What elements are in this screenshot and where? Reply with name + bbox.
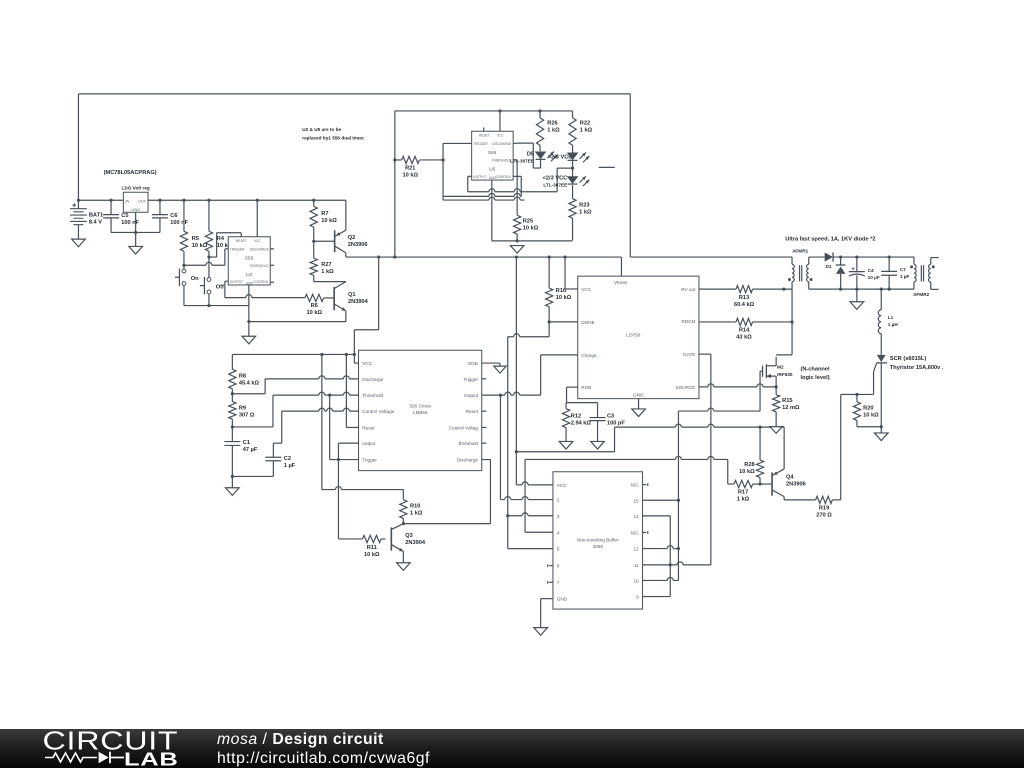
- svg-text:14: 14: [634, 514, 640, 519]
- svg-text:12 mΩ: 12 mΩ: [782, 405, 800, 411]
- svg-text:1 µF: 1 µF: [900, 274, 910, 279]
- node: [758, 482, 761, 485]
- pin U3 DONE wire: [549, 321, 578, 323]
- wire pin2 feed: [500, 395, 553, 499]
- svg-text:1 kΩ: 1 kΩ: [321, 269, 334, 275]
- wire pin11: [643, 562, 711, 567]
- svg-text:Charge: Charge: [581, 353, 597, 358]
- ground: [632, 409, 646, 417]
- svg-text:R8: R8: [239, 373, 246, 379]
- svg-text:47 µF: 47 µF: [243, 447, 258, 453]
- pin 556 GND right: [482, 363, 500, 366]
- wire pin9: [643, 596, 671, 598]
- node R5 bottom: [182, 264, 185, 267]
- svg-text:C1: C1: [243, 440, 250, 446]
- svg-text:555: 555: [488, 150, 496, 156]
- svg-text:>2/3 VCC: >2/3 VCC: [548, 154, 573, 160]
- pin 556 Reset right stub: [482, 410, 487, 412]
- resistor R7: [310, 199, 337, 242]
- svg-text:RGB: RGB: [581, 385, 591, 390]
- svg-text:XFMR2: XFMR2: [913, 292, 929, 297]
- wire: [492, 239, 573, 242]
- wire: [393, 160, 396, 259]
- wire 556 Discharge right: [403, 460, 490, 524]
- pin 556 threshold right stub: [482, 442, 487, 444]
- svg-text:TRIGGER: TRIGGER: [230, 247, 245, 251]
- svg-text:D5: D5: [527, 152, 534, 158]
- wire control route: [273, 408, 358, 443]
- svg-text:Trigger: Trigger: [362, 458, 377, 463]
- svg-text:D1: D1: [825, 264, 831, 269]
- pin 556 output left: [338, 443, 358, 459]
- svg-text:2N3906: 2N3906: [348, 242, 368, 248]
- wire: [249, 311, 346, 322]
- pin U2 GND wire: [247, 285, 250, 336]
- diode D2 freewheel: [836, 257, 846, 289]
- ground: [494, 366, 506, 373]
- svg-text:CONTROL: CONTROL: [496, 175, 512, 179]
- wire DONE to 4050 col: [508, 322, 549, 516]
- wire pin15: [643, 499, 681, 502]
- svg-text:C7: C7: [900, 267, 906, 272]
- svg-text:threshold: threshold: [459, 441, 479, 446]
- node LED junction: [571, 160, 574, 169]
- svg-text:RDCM: RDCM: [681, 319, 695, 324]
- wire: [629, 94, 631, 257]
- wire: [77, 94, 79, 200]
- svg-text:Lt3750: Lt3750: [626, 332, 641, 337]
- node: [231, 392, 234, 395]
- text <2/3 VCC: [543, 175, 568, 187]
- svg-text:R6: R6: [311, 303, 318, 309]
- wire: [225, 249, 228, 265]
- wire: [783, 497, 785, 500]
- wire 556 Output right: [482, 355, 578, 397]
- wire 556 reset route: [346, 354, 358, 427]
- wire: [314, 240, 335, 242]
- wire U5 row2: [443, 176, 521, 196]
- ground: [510, 246, 524, 254]
- svg-text:C2: C2: [284, 456, 291, 462]
- transistor Q3 2N3904: [391, 524, 426, 552]
- svg-text:N/C: N/C: [631, 483, 640, 488]
- svg-text:SOURCE: SOURCE: [675, 385, 695, 390]
- svg-text:R26: R26: [547, 121, 557, 127]
- svg-text:Control Voltag: Control Voltag: [449, 425, 479, 430]
- svg-text:VCC: VCC: [362, 361, 373, 366]
- svg-text:C5: C5: [121, 213, 128, 219]
- battery BAT1: [70, 199, 103, 226]
- svg-text:GND: GND: [131, 207, 140, 212]
- transformer XFMR1: [788, 249, 813, 355]
- node: [548, 320, 551, 323]
- svg-text:7: 7: [557, 580, 560, 585]
- svg-text:LM556: LM556: [413, 410, 428, 415]
- svg-text:Reset: Reset: [466, 409, 479, 414]
- resistor R16: [546, 255, 572, 321]
- node R4 bottom: [207, 255, 210, 258]
- resistor R21: [393, 156, 443, 178]
- svg-text:N/C: N/C: [631, 531, 640, 536]
- resistor R5: [180, 199, 207, 266]
- svg-text:12: 12: [634, 547, 640, 552]
- capacitor C2: [265, 443, 295, 476]
- wire: [232, 353, 356, 356]
- pin U3 Vtrans: [620, 257, 622, 276]
- svg-text:10 kΩ: 10 kΩ: [321, 218, 337, 224]
- pin U5 VCC: [498, 109, 501, 131]
- wire: [111, 231, 160, 233]
- svg-text:OUTPUT: OUTPUT: [473, 175, 487, 179]
- svg-text:GND: GND: [557, 597, 568, 602]
- wire: [809, 288, 914, 291]
- svg-text:DISCHARGE: DISCHARGE: [492, 142, 512, 146]
- resistor R27: [310, 240, 334, 282]
- svg-text:R5: R5: [192, 236, 199, 242]
- svg-text:R14: R14: [739, 328, 750, 334]
- wire main mid rail: [346, 256, 622, 258]
- svg-text:1 µF: 1 µF: [284, 463, 296, 469]
- wire gate col: [677, 411, 679, 580]
- text SCR label: [890, 356, 944, 371]
- resistor R10: [400, 490, 423, 524]
- transistor Q1 2N3904: [334, 282, 369, 311]
- resistor R17: [728, 459, 760, 502]
- diode LED 2: [568, 153, 590, 163]
- wire pin14: [643, 516, 671, 597]
- svg-text:100 nF: 100 nF: [170, 220, 188, 226]
- svg-text:43 kΩ: 43 kΩ: [736, 335, 752, 341]
- ground: [874, 433, 888, 441]
- svg-text:U5: U5: [489, 166, 496, 172]
- svg-text:Trigger: Trigger: [463, 377, 478, 382]
- wire U5 discharge to D5: [513, 143, 540, 168]
- wire pin4 feed: [525, 459, 553, 532]
- wire stub dash: [599, 166, 615, 168]
- wire U2 output to R6: [225, 295, 305, 298]
- wire: [231, 475, 274, 488]
- ground: [226, 488, 240, 496]
- wire: [337, 460, 339, 539]
- transformer XFMR2: [910, 257, 939, 297]
- svg-text:R21: R21: [405, 166, 415, 172]
- svg-text:45.4 kΩ: 45.4 kΩ: [239, 380, 260, 386]
- svg-text:2N3904: 2N3904: [405, 540, 426, 546]
- svg-text:M2: M2: [777, 365, 784, 370]
- wire pin10: [643, 577, 679, 580]
- resistor R19: [784, 394, 841, 518]
- wire: [314, 281, 346, 283]
- svg-text:Discharge: Discharge: [457, 458, 478, 463]
- wire: [833, 255, 914, 258]
- wire 4050 vcc feed: [515, 255, 518, 453]
- resistor R26: [536, 109, 560, 151]
- wire: [249, 321, 346, 323]
- ground: [129, 246, 143, 254]
- svg-text:LTL-307EE: LTL-307EE: [543, 182, 567, 187]
- pin U3 VCC wire: [563, 255, 577, 289]
- wire U5 trigger: [441, 143, 471, 196]
- svg-text:4050: 4050: [593, 544, 604, 549]
- svg-text:SCR (s6015L): SCR (s6015L): [890, 356, 926, 362]
- op-amp 556 LM556: [359, 350, 482, 470]
- resistor R20: [853, 394, 881, 426]
- svg-text:Q1: Q1: [348, 292, 356, 298]
- svg-text:8.4 V: 8.4 V: [89, 219, 102, 225]
- note text N-channel: [800, 367, 830, 382]
- resistor R15: [773, 387, 800, 427]
- svg-text:556 Cmos: 556 Cmos: [409, 403, 431, 408]
- svg-text:10 µF: 10 µF: [868, 275, 880, 280]
- op-amp U5 555 timer: [472, 131, 514, 180]
- svg-text:10 kΩ: 10 kΩ: [364, 552, 380, 558]
- capacitor C5: [103, 199, 140, 233]
- svg-text:CONTROL: CONTROL: [253, 280, 269, 284]
- pin 556 Trigger right stub: [482, 378, 487, 380]
- svg-text:U2 & U5 are to be: U2 & U5 are to be: [302, 127, 341, 132]
- wire threshold route: [232, 392, 358, 427]
- op-amp U3 LT3750: [578, 276, 699, 399]
- text ultra fast: [785, 236, 875, 242]
- capacitor C1: [224, 427, 257, 477]
- svg-text:R19: R19: [819, 505, 829, 511]
- svg-text:R20: R20: [863, 405, 873, 411]
- wire discharge route: [232, 376, 358, 394]
- svg-text:Q4: Q4: [786, 475, 794, 481]
- svg-text:DONE: DONE: [581, 320, 595, 325]
- pin U2 THRESHOLD: [270, 264, 274, 266]
- resistor R23: [569, 185, 592, 240]
- transistor Q2 2N3906: [335, 200, 368, 253]
- svg-text:C3: C3: [607, 414, 614, 420]
- svg-text:Q2: Q2: [348, 235, 356, 241]
- diode D5 LED: [536, 152, 558, 169]
- svg-text:1 kΩ: 1 kΩ: [737, 496, 750, 502]
- wire output-threshold feedback: [330, 395, 339, 459]
- wire U5 output route: [468, 176, 525, 191]
- svg-text:R17: R17: [738, 489, 748, 495]
- svg-text:2.94 kΩ: 2.94 kΩ: [571, 420, 592, 426]
- wire sense row: [525, 456, 728, 459]
- wire drain jog: [776, 354, 792, 356]
- svg-text:R7: R7: [321, 211, 328, 217]
- svg-text:Thyristor 15A,600v .: Thyristor 15A,600v .: [890, 365, 944, 371]
- wire: [184, 304, 249, 307]
- transistor M2 IRF530: [760, 357, 793, 411]
- svg-text:L1: L1: [888, 315, 894, 320]
- resistor R8: [229, 354, 260, 393]
- svg-text:10 kΩ: 10 kΩ: [556, 295, 572, 301]
- svg-text:11: 11: [634, 563, 639, 568]
- pin U3 GND wire: [638, 399, 640, 409]
- svg-text:OUTPUT: OUTPUT: [230, 280, 244, 284]
- svg-text:9: 9: [636, 595, 639, 600]
- inductor L1: [878, 289, 898, 355]
- note text: [302, 127, 365, 141]
- svg-text:Vtrans: Vtrans: [614, 280, 628, 285]
- wire pin3 feed: [506, 513, 553, 518]
- thyristor SCR: [841, 355, 887, 433]
- svg-text:replaced by1 556 dual timer.: replaced by1 556 dual timer.: [302, 136, 365, 141]
- svg-text:100 pF: 100 pF: [607, 420, 625, 426]
- diode LED 3: [568, 168, 590, 186]
- svg-text:R23: R23: [579, 202, 589, 208]
- svg-text:307 Ω: 307 Ω: [239, 412, 255, 418]
- ground: [397, 563, 411, 571]
- wire: [345, 253, 347, 257]
- svg-text:15: 15: [634, 498, 640, 503]
- svg-text:+: +: [72, 202, 76, 209]
- svg-text:R10: R10: [410, 503, 420, 509]
- svg-text:10 kΩ: 10 kΩ: [863, 412, 879, 418]
- ground: [534, 628, 548, 636]
- resistor R13: [699, 286, 792, 308]
- svg-text:C4: C4: [868, 268, 874, 273]
- svg-text:logic level): logic level): [800, 375, 829, 381]
- node main rail: [78, 199, 345, 201]
- resistor R25: [514, 215, 539, 241]
- footer bar: [0, 729, 1024, 768]
- svg-text:Discharge: Discharge: [362, 377, 383, 382]
- svg-text:R28: R28: [744, 462, 754, 468]
- svg-text:RESET: RESET: [479, 133, 491, 137]
- svg-text:Ultra fast speed, 1A, 1KV diod: Ultra fast speed, 1A, 1KV diode *2: [785, 236, 875, 242]
- svg-text:VCC: VCC: [497, 133, 504, 137]
- ground: [242, 336, 256, 344]
- wire: [525, 168, 573, 192]
- wire: [184, 262, 225, 265]
- svg-text:VCC: VCC: [557, 483, 568, 488]
- svg-text:OUT: OUT: [138, 198, 147, 203]
- capacitor C6: [152, 199, 189, 233]
- svg-text:Control Voltage: Control Voltage: [362, 409, 394, 414]
- wire: [630, 256, 792, 258]
- svg-text:R11: R11: [367, 545, 377, 551]
- capacitor C7: [881, 257, 909, 289]
- svg-text:10 kΩ: 10 kΩ: [402, 173, 418, 179]
- svg-text:R9: R9: [239, 405, 246, 411]
- capacitor C3: [566, 403, 625, 442]
- wire 556 VCC route: [354, 255, 380, 363]
- svg-text:VCC: VCC: [254, 239, 261, 243]
- wire 556 to R10 row: [322, 354, 404, 489]
- ground: [770, 427, 782, 434]
- op-amp U2 555 timer: [228, 237, 270, 286]
- svg-text:2N3904: 2N3904: [348, 299, 369, 305]
- svg-text:IRF530: IRF530: [777, 372, 793, 377]
- switch SW-Off: [200, 257, 224, 306]
- CircuitLab logo: [0, 729, 190, 768]
- svg-text:R4: R4: [217, 236, 225, 242]
- svg-text:10 kΩ: 10 kΩ: [523, 226, 539, 232]
- pin U3 RGB wire: [567, 387, 578, 403]
- svg-text:DISCHARGE: DISCHARGE: [250, 247, 270, 251]
- resistor R11: [338, 535, 385, 557]
- ground: [72, 225, 86, 247]
- pin 556 CV right stub: [482, 426, 487, 428]
- resistor R9: [229, 394, 255, 427]
- svg-text:555: 555: [245, 255, 253, 261]
- svg-text:100 nF: 100 nF: [121, 220, 139, 226]
- svg-text:Q3: Q3: [405, 533, 413, 539]
- svg-text:1 kΩ: 1 kΩ: [579, 209, 592, 215]
- svg-text:10 kΩ: 10 kΩ: [192, 243, 208, 249]
- capacitor C4: [849, 257, 880, 289]
- wire pin12: [643, 546, 681, 551]
- svg-text:XFMR1: XFMR1: [792, 249, 808, 254]
- svg-text:THRESHOLD: THRESHOLD: [249, 264, 269, 268]
- svg-text:(MC78L05ACPRAG): (MC78L05ACPRAG): [104, 170, 157, 176]
- resistor R28: [739, 426, 764, 485]
- svg-text:Non-inverting Buffer: Non-inverting Buffer: [577, 537, 619, 542]
- wire U3 GATE col: [699, 354, 711, 565]
- svg-text:Reset: Reset: [362, 425, 375, 430]
- pin U2 CONTROL: [270, 281, 274, 283]
- svg-text:3: 3: [557, 514, 560, 519]
- svg-text:C6: C6: [170, 213, 177, 219]
- pin U2 DISCHARGE: [270, 248, 274, 250]
- pin 4050 p6 stub: [548, 564, 553, 567]
- svg-text:<2/3 VCC: <2/3 VCC: [543, 175, 568, 181]
- svg-text:R22: R22: [580, 121, 590, 127]
- svg-text:Off: Off: [216, 284, 224, 290]
- resistor R4: [205, 199, 232, 257]
- svg-text:R25: R25: [523, 219, 533, 225]
- svg-text:2: 2: [557, 498, 560, 503]
- pin 556 trigger left: [337, 458, 359, 461]
- wire: [516, 424, 759, 452]
- wire: [516, 452, 553, 485]
- svg-text:270 Ω: 270 Ω: [816, 512, 832, 518]
- node: [402, 522, 405, 525]
- wire: [134, 212, 137, 246]
- resistor R6: [305, 294, 334, 316]
- svg-text:1 kΩ: 1 kΩ: [580, 128, 593, 134]
- wire: [809, 256, 825, 258]
- svg-text:1 kΩ: 1 kΩ: [410, 510, 423, 516]
- svg-text:10 kΩ: 10 kΩ: [306, 310, 322, 316]
- ground: [850, 302, 864, 310]
- svg-text:TRIGGER: TRIGGER: [473, 142, 488, 146]
- svg-text:GATE: GATE: [683, 352, 695, 357]
- wire: [78, 93, 630, 95]
- wire M2 gate row: [678, 408, 760, 411]
- svg-text:GND: GND: [633, 393, 644, 398]
- transistor Q4 2N3906: [760, 469, 806, 497]
- svg-text:R15: R15: [782, 398, 792, 404]
- svg-text:5: 5: [557, 547, 560, 552]
- resistor R12: [562, 403, 591, 442]
- text >2/3 VCC: [548, 154, 573, 160]
- svg-text:10 kΩ: 10 kΩ: [739, 469, 755, 475]
- svg-text:IN: IN: [125, 198, 129, 203]
- svg-text:2N3906: 2N3906: [786, 482, 806, 488]
- svg-text:R27: R27: [321, 262, 331, 268]
- pin U2 OUTPUT wire: [225, 281, 228, 297]
- node: [231, 425, 234, 428]
- svg-text:U2: U2: [246, 272, 253, 278]
- svg-text:R12: R12: [571, 414, 581, 420]
- svg-text:1 µH: 1 µH: [888, 322, 899, 327]
- wire pin5 feed: [508, 516, 553, 549]
- wire: [760, 427, 784, 469]
- svg-text:(N-channel: (N-channel: [800, 367, 830, 373]
- pin 4050 GND wire: [541, 599, 553, 628]
- wire: [395, 110, 573, 112]
- svg-text:Threshold: Threshold: [362, 393, 383, 398]
- pin U2 VCC: [256, 199, 259, 237]
- voltage regulator LDO: [121, 186, 149, 213]
